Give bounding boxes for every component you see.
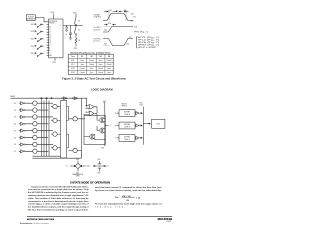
DUT pin name strip — [49, 27, 51, 58]
switch SW-E — [31, 53, 44, 57]
svg-text:X6: X6 — [49, 42, 51, 44]
svg-text:S2: S2 — [78, 30, 80, 32]
svg-text:VSS: VSS — [52, 62, 56, 64]
svg-text:S2: S2 — [90, 56, 92, 58]
svg-text:B: B — [115, 125, 116, 127]
svg-text:VDD: VDD — [51, 12, 55, 14]
legend transmission gate symbol — [66, 159, 89, 178]
svg-text:SELECT: SELECT — [122, 103, 128, 105]
svg-text:INH: INH — [49, 55, 51, 57]
select box C — [119, 135, 135, 142]
wire DUT output node — [63, 24, 83, 26]
svg-text:(Z-TO-L): (Z-TO-L) — [94, 41, 101, 43]
svg-text:the bus line.: the bus line. — [95, 206, 125, 209]
svg-text:tTHL: tTHL — [124, 9, 127, 12]
svg-text:A: A — [49, 46, 50, 49]
wire DUT bottom to VSS — [54, 58, 56, 61]
svg-text:IOL: IOL — [127, 200, 130, 202]
svg-text:tTLH: tTLH — [109, 9, 112, 12]
svg-text:INHIBIT: INHIBIT — [10, 96, 15, 98]
svg-text:Open: Open — [90, 68, 94, 70]
svg-text:Closed: Closed — [107, 60, 112, 62]
OUT box — [152, 119, 165, 128]
svg-text:50%: 50% — [127, 43, 131, 45]
wire VDD to DUT — [53, 14, 55, 19]
switch SW-D — [31, 45, 44, 49]
table frame — [68, 54, 113, 74]
svg-text:OUTPUT 2: OUTPUT 2 — [94, 39, 102, 41]
svg-text:tors may be connected to a sin: tors may be connected to a single data b… — [28, 188, 90, 191]
svg-text:(C): (C) — [107, 166, 109, 168]
row buffers — [21, 102, 24, 153]
svg-text:BUFFER: BUFFER — [124, 137, 130, 139]
svg-text:RL: RL — [78, 40, 80, 42]
svg-text:Test: Test — [71, 55, 75, 58]
svg-text:(Z-TO-H): (Z-TO-H) — [94, 29, 101, 31]
svg-text:LEVEL B: LEVEL B — [124, 127, 130, 129]
DUT left pin stubs — [47, 22, 49, 56]
svg-text:tPZL (Fig. 7): tPZL (Fig. 7) — [138, 36, 160, 39]
svg-text:S1: S1 — [78, 21, 80, 23]
svg-text:X6: X6 — [14, 144, 16, 146]
svg-text:S3: S3 — [99, 56, 101, 58]
svg-text:VOH: VOH — [134, 26, 137, 28]
data input rows — [14, 103, 16, 153]
svg-text:Closed: Closed — [98, 68, 103, 70]
svg-text:X1: X1 — [49, 29, 51, 31]
output stage outline box — [84, 115, 105, 144]
buffer U1b — [74, 97, 78, 100]
svg-text:50%: 50% — [104, 43, 108, 45]
waveform W3 dashed reference — [104, 45, 110, 47]
svg-text:state. The number of 8-bit dat: state. The number of 8-bit data selector… — [28, 197, 89, 200]
svg-text:INPUTS: INPUTS — [122, 105, 128, 107]
svg-text:Open: Open — [80, 60, 84, 62]
svg-text:VOL: VOL — [129, 37, 132, 39]
row inverter bubbles — [24, 103, 25, 152]
svg-text:tPHZ (Fig. 7): tPHZ (Fig. 7) — [138, 44, 160, 47]
wire VDD to output stage — [103, 102, 104, 117]
svg-text:Z: Z — [60, 25, 61, 27]
waveform W2 trace — [103, 27, 133, 33]
waveform W2 annotations — [104, 24, 116, 26]
svg-text:N must be calculated for both: N must be calculated for both high and l… — [95, 203, 162, 206]
svg-text:VSS: VSS — [140, 104, 143, 106]
svg-text:Open: Open — [99, 64, 103, 66]
svg-text:Open: Open — [80, 64, 84, 66]
buffer B — [136, 124, 142, 127]
svg-text:X2: X2 — [14, 117, 16, 119]
svg-text:X5: X5 — [14, 137, 16, 139]
legend MOS pair symbol — [93, 159, 109, 174]
svg-text:C: C — [115, 138, 117, 140]
svg-text:OUT: OUT — [156, 124, 161, 126]
buffer U1a — [64, 97, 68, 100]
svg-text:tPLZ (Fig. 7): tPLZ (Fig. 7) — [138, 38, 160, 41]
svg-text:Figure 3. 3-State AC Test Circ: Figure 3. 3-State AC Test Circuit and Wa… — [62, 78, 127, 81]
junction dots — [41, 103, 82, 152]
svg-text:DEVICE: DEVICE — [49, 23, 54, 25]
svg-text:VDD: VDD — [76, 159, 79, 161]
svg-text:X7: X7 — [49, 45, 51, 47]
svg-text:tPLZ = tPHZ: tPLZ = tPHZ — [138, 46, 156, 49]
svg-text:tPHZ: tPHZ — [71, 71, 75, 74]
transistor N2 — [90, 134, 95, 140]
buffer C — [136, 136, 142, 139]
select box B — [119, 122, 135, 129]
svg-text:BUFFER: BUFFER — [124, 112, 130, 114]
waveform W1 timing arrows — [104, 10, 129, 12]
svg-text:N =: N = — [115, 197, 119, 199]
svg-text:3-STATE MODE OF OPERATION: 3-STATE MODE OF OPERATION — [70, 182, 110, 185]
body text right column 2 — [95, 203, 162, 209]
transistor P1 — [100, 118, 105, 124]
svg-text:Output terminals of several MC: Output terminals of several MC14512B 8-B… — [31, 185, 89, 188]
arrow C to bus — [141, 137, 142, 138]
svg-text:VDD: VDD — [31, 39, 35, 41]
svg-text:Z: Z — [110, 125, 111, 127]
svg-text:Closed: Closed — [80, 68, 85, 70]
footer rule — [27, 215, 172, 217]
svg-text:VDD: VDD — [31, 24, 35, 26]
svg-text:S1: S1 — [81, 56, 83, 58]
buffer A — [136, 112, 142, 115]
svg-text:tPZH: tPZH — [108, 22, 111, 25]
transmission gate circles stage A — [19, 101, 53, 153]
svg-text:A: A — [115, 112, 116, 115]
svg-text:Closed: Closed — [89, 60, 94, 62]
select bus — [142, 107, 144, 145]
svg-text:X7: X7 — [14, 151, 16, 153]
bottom wires — [33, 156, 82, 158]
pulse generator box — [26, 15, 35, 21]
svg-text:B: B — [49, 50, 50, 52]
svg-text:VSS: VSS — [31, 31, 34, 33]
stage B to C wires — [67, 107, 73, 151]
arrow B to bus — [141, 125, 142, 126]
select box A — [119, 110, 135, 117]
svg-text:current (typ.), a state or dou: current (typ.), a state or double output… — [28, 203, 89, 206]
svg-text:tPLZ: tPLZ — [71, 63, 74, 66]
transmission gate circles stage B — [51, 104, 61, 150]
svg-text:VSS: VSS — [31, 46, 34, 48]
svg-text:2-191: 2-191 — [166, 221, 171, 223]
svg-text:X0: X0 — [49, 27, 51, 29]
switch S2 — [74, 26, 80, 35]
svg-text:VDD: VDD — [98, 159, 101, 161]
svg-text:the bus line at maximum loadin: the bus line at maximum loading on each … — [28, 209, 89, 212]
scope terminal circles — [66, 27, 68, 29]
svg-text:connected to a bus line is det: connected to a bus line is determined fr… — [28, 200, 89, 203]
svg-text:VSS: VSS — [131, 21, 134, 23]
waveform W3 trace — [103, 39, 133, 46]
wire pulse generator to DUT — [35, 17, 46, 21]
svg-text:by those on other device input: by those on other device inputs), and ca… — [95, 189, 162, 192]
wire to VSS — [75, 45, 77, 47]
svg-text:VDD: VDD — [73, 12, 77, 14]
body text left column — [28, 185, 90, 211]
wire stage C to output — [80, 151, 82, 159]
arrow to OUT box — [149, 123, 150, 124]
svg-text:X5: X5 — [49, 40, 51, 42]
svg-text:Closed: Closed — [107, 64, 112, 66]
wire gates to transistors — [97, 107, 99, 131]
svg-text:Closed: Closed — [98, 72, 103, 74]
svg-text:X0: X0 — [14, 103, 16, 105]
svg-text:× 10: × 10 — [136, 197, 141, 200]
svg-text:OUTPUT 1: OUTPUT 1 — [94, 27, 102, 29]
svg-text:LOGIC DIAGRAM: LOGIC DIAGRAM — [91, 88, 113, 91]
svg-text:VDD: VDD — [140, 102, 144, 104]
svg-text:C: C — [49, 53, 50, 55]
transmission gate circles stage C — [73, 117, 85, 153]
switch SW-B — [31, 31, 44, 35]
svg-text:LEVEL C: LEVEL C — [124, 139, 130, 141]
svg-text:tPZH: tPZH — [71, 67, 75, 70]
svg-text:VSS: VSS — [98, 173, 101, 175]
wire bus to OUT box — [143, 123, 150, 125]
waveform W1 transition verticals — [109, 10, 126, 20]
waveform W1 trace — [103, 14, 133, 21]
vertical bus lines — [42, 98, 50, 156]
waveform W3 right label block — [136, 37, 139, 48]
svg-text:tw: tw — [116, 9, 117, 12]
NOR gate G2 — [86, 111, 98, 115]
svg-text:VSS: VSS — [31, 53, 34, 55]
top control wire — [11, 97, 88, 99]
arrow A to bus — [141, 113, 142, 114]
svg-text:X2: X2 — [49, 32, 51, 34]
svg-text:Semiconductor, For More Inform: Semiconductor, For More Information — [20, 222, 49, 225]
transistor N1 — [100, 128, 105, 134]
node dot output — [76, 25, 77, 26]
DUT box — [49, 19, 63, 58]
svg-text:Open: Open — [107, 68, 111, 70]
svg-text:Open: Open — [107, 72, 111, 74]
NOR gate G1 — [86, 105, 98, 109]
svg-text:MC14512B: MC14512B — [49, 21, 57, 23]
svg-text:maining devices are disabled i: maining devices are disabled into a high… — [28, 194, 89, 197]
svg-text:S4: S4 — [108, 55, 110, 58]
svg-text:the MC14512B is selected by th: the MC14512B is selected by the 3-state … — [28, 191, 89, 194]
wire N2 connections — [84, 134, 105, 146]
junction circles on top wire — [41, 98, 42, 99]
svg-text:VSS: VSS — [73, 48, 77, 50]
svg-text:IN: IN — [66, 166, 67, 168]
switch S1 — [74, 17, 80, 25]
svg-text:50%: 50% — [133, 16, 137, 18]
wire NOR inputs — [84, 106, 87, 115]
svg-text:BUFFER: BUFFER — [124, 124, 130, 126]
svg-text:tPHZ (Fig. 7): tPHZ (Fig. 7) — [134, 31, 148, 34]
tall connection rect — [61, 101, 67, 159]
vertical control lines — [81, 98, 86, 158]
output node wire — [105, 123, 109, 128]
svg-text:CONTROL: CONTROL — [94, 17, 102, 19]
svg-text:and the load current IL requir: and the load current IL required to driv… — [95, 186, 162, 189]
svg-text:tPZL: tPZL — [71, 59, 74, 62]
body text right column — [95, 186, 162, 192]
svg-text:X1: X1 — [14, 110, 16, 112]
svg-text:50%: 50% — [104, 30, 108, 32]
svg-text:Open: Open — [90, 72, 94, 74]
svg-text:the disabled device outputs, a: the disabled device outputs, and the req… — [28, 206, 89, 209]
switch SW-C — [31, 38, 44, 42]
svg-text:Open: Open — [99, 60, 103, 62]
equation — [115, 196, 141, 202]
svg-text:3-STATE: 3-STATE — [94, 13, 100, 16]
table header text — [71, 55, 110, 58]
svg-text:X4: X4 — [49, 37, 51, 39]
table body text — [71, 59, 111, 74]
waveform W2 dashed reference — [104, 26, 111, 28]
svg-text:X4: X4 — [14, 130, 16, 132]
svg-text:PULSE: PULSE — [28, 16, 33, 18]
svg-text:X3: X3 — [49, 34, 51, 36]
switch SW-A — [31, 24, 44, 28]
svg-text:Closed: Closed — [89, 64, 94, 66]
svg-text:Closed: Closed — [80, 72, 85, 74]
svg-text:VSS: VSS — [101, 148, 104, 150]
resistor RL — [75, 35, 77, 45]
svg-text:=: = — [89, 166, 91, 168]
svg-text:CL: CL — [65, 34, 67, 36]
wire S1 rail — [75, 14, 77, 17]
svg-text:tPZH (Fig. 7): tPZH (Fig. 7) — [138, 41, 160, 44]
capacitor CL — [65, 25, 72, 40]
svg-text:X3: X3 — [14, 124, 16, 126]
svg-text:MOTOROLA CMOS LOGIC DATA: MOTOROLA CMOS LOGIC DATA — [27, 218, 54, 221]
svg-text:VDD: VDD — [131, 13, 134, 15]
